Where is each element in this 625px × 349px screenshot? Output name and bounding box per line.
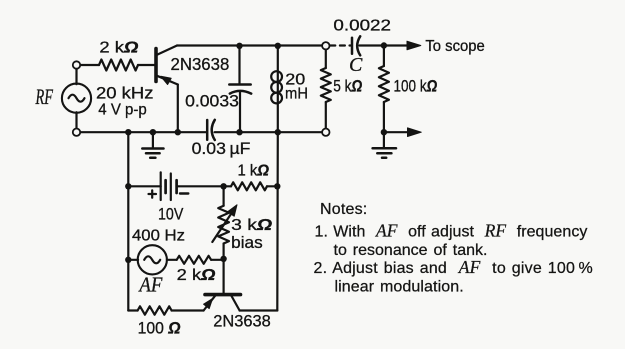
svg-text:1. With AF off adjust RF f: 1. With AF off adjust RF frequency — [315, 220, 588, 240]
resistor R3 5k ohm — [321, 68, 331, 102]
wire R6 lower lead — [223, 244, 225, 259]
svg-text:4 V p-p: 4 V p-p — [98, 102, 147, 119]
svg-text:400 Hz: 400 Hz — [132, 228, 185, 245]
wire R6 upper lead — [223, 186, 225, 205]
battery B1 10V positive tall plate — [160, 172, 162, 200]
node C2 branch on bottom rail — [236, 129, 242, 135]
svg-text:To scope: To scope — [425, 38, 484, 55]
transistor Q2 collector lead — [231, 296, 239, 311]
node C2 branch on top rail — [236, 43, 242, 49]
wire top rail (Q1 collector to tank terminal) — [177, 44, 322, 46]
resistor R6 rheostat arrow head — [228, 205, 237, 216]
source RF 20kHz circle — [62, 84, 91, 113]
wire bottom rail left segment (RF to 0.03uF cap) — [80, 131, 206, 133]
wire RF bottom stub — [75, 112, 77, 128]
capacitor C2 0.0033 bottom curved plate — [230, 91, 251, 94]
wire dashed link to coupling capacitor C — [330, 44, 350, 46]
node inductor L1 on bottom rail — [275, 129, 281, 135]
node right rail junction — [274, 183, 280, 189]
svg-text:C: C — [349, 54, 363, 76]
wire C2 branch lower — [239, 93, 241, 133]
source RF sine wave — [69, 95, 85, 102]
svg-text:10V: 10V — [158, 205, 183, 223]
svg-text:100 kΩ: 100 kΩ — [394, 77, 438, 95]
ground G2 stub — [383, 132, 385, 148]
capacitor C 0.0022 right curved plate — [357, 36, 360, 55]
node scope tap — [381, 42, 387, 48]
inductor L1 20 mH coil loop 1 — [271, 71, 282, 82]
wire Q1 emitter vertical — [177, 85, 179, 133]
terminal open circle tank top — [322, 42, 329, 49]
resistor R5 1k ohm — [231, 182, 267, 190]
ground G1 stub — [152, 132, 154, 148]
svg-text:2. Adjust bias and AF to giv: 2. Adjust bias and AF to give 100 % — [314, 257, 593, 277]
svg-text:2N3638: 2N3638 — [171, 54, 230, 74]
wire battery right lead — [177, 185, 231, 187]
arrow to scope — [407, 41, 421, 50]
svg-text:2 kΩ: 2 kΩ — [177, 267, 216, 284]
resistor R3 5k upper lead — [325, 50, 327, 69]
wire Q2 base vertical — [223, 259, 225, 293]
wire R7 right lead — [211, 259, 224, 261]
wire AF right lead — [167, 259, 177, 261]
battery B1 inner tall plate — [170, 174, 172, 201]
resistor R7 2k ohm — [177, 256, 211, 264]
transistor Q1 2N3638 base bar — [154, 49, 158, 82]
svg-text:2 kΩ: 2 kΩ — [99, 39, 138, 56]
svg-text:3 kΩ: 3 kΩ — [231, 217, 273, 234]
battery B1 inner short plate — [164, 180, 167, 193]
svg-text:mH: mH — [285, 86, 308, 103]
source AF 400 Hz circle — [138, 245, 167, 274]
terminal open circle RF bottom — [73, 129, 80, 136]
wire resistor R1 lead to Q1 base — [138, 64, 154, 66]
transistor Q2 2N3638 base bar — [205, 293, 241, 297]
svg-text:RF: RF — [35, 84, 54, 109]
svg-text:Notes:: Notes: — [320, 201, 367, 218]
resistor R6 3k bias rheostat — [218, 206, 229, 244]
wire R5 right lead — [267, 185, 277, 187]
resistor R4 100k ohm — [379, 66, 389, 102]
capacitor C2 0.0033 top plate — [229, 83, 250, 86]
svg-text:0.03 µF: 0.03 µF — [192, 140, 251, 158]
label battery polarity minus — [180, 192, 188, 194]
resistor R3 5k lower lead — [325, 102, 327, 129]
svg-text:1 kΩ: 1 kΩ — [238, 162, 270, 179]
svg-text:linear modulation.: linear modulation. — [335, 278, 464, 295]
wire Q1 collector slope — [157, 46, 177, 55]
ground G1 — [142, 149, 163, 158]
node inductor L1 on top rail — [275, 43, 281, 49]
ground G2 — [373, 148, 396, 157]
arrow scope ground — [408, 128, 422, 137]
node scope ground tap — [381, 129, 387, 135]
svg-text:5 kΩ: 5 kΩ — [333, 77, 362, 95]
wire to scope ground arrow — [384, 131, 409, 133]
transistor Q2 emitter lead — [204, 296, 216, 311]
transistor Q1 emitter lead — [157, 76, 178, 85]
wire R8 to Q2 emitter — [172, 309, 204, 311]
wire C to scope — [360, 44, 409, 46]
svg-text:bias: bias — [231, 234, 263, 252]
capacitor C1 0.03uF left plate — [206, 120, 209, 140]
node bias tap — [220, 183, 226, 189]
wire AF left stub — [128, 259, 138, 261]
wire bottom rail right segment (0.03uF cap to tank terminal) — [215, 131, 323, 133]
capacitor C1 0.03uF right curved plate — [212, 120, 215, 140]
wire Q2 collector to right rail — [240, 309, 278, 311]
resistor R8 100 ohm — [138, 306, 172, 314]
node Q2 base junction — [220, 256, 226, 262]
node Q1 emitter on bottom rail — [175, 129, 181, 135]
svg-text:2N3638: 2N3638 — [213, 312, 271, 330]
wire RF top stub — [75, 69, 77, 84]
wire L1 vertical — [277, 46, 279, 132]
battery B1 negative short plate — [175, 180, 178, 193]
wire base lead Q1 — [80, 64, 99, 66]
capacitor C 0.0022 left plate — [351, 38, 354, 54]
wire battery left lead — [128, 185, 160, 187]
node lower-left rail tap on bottom rail — [125, 129, 131, 135]
wire C2 branch upper — [238, 46, 240, 85]
label battery polarity plus — [149, 190, 157, 197]
resistor R4 100k lower lead — [383, 102, 385, 132]
node AF on left rail — [125, 257, 131, 263]
transistor Q2 emitter arrow — [204, 299, 213, 309]
svg-text:100 Ω: 100 Ω — [138, 319, 181, 337]
resistor R4 100k upper lead — [383, 46, 385, 67]
svg-text:AF: AF — [138, 273, 163, 297]
wire lower-left rail — [127, 132, 129, 310]
svg-text:0.0033: 0.0033 — [185, 91, 239, 110]
inductor L1 20 mH coil loop 2 — [271, 82, 282, 93]
wire bottom rail lower circuit left — [128, 309, 137, 311]
resistor R1 2k ohm — [99, 60, 138, 71]
transistor Q1 emitter arrow — [161, 76, 171, 84]
svg-text:0.0022: 0.0022 — [333, 18, 391, 35]
inductor L1 20 mH coil loop 3 — [271, 93, 282, 104]
node ground tap on bottom rail — [150, 129, 156, 135]
terminal open circle tank bottom — [322, 129, 329, 136]
wire right rail — [276, 132, 279, 310]
node battery on left rail — [125, 183, 131, 189]
resistor R6 rheostat arrow shaft — [212, 214, 231, 242]
source AF sine wave — [144, 256, 160, 263]
terminal open circle RF top — [73, 61, 80, 68]
svg-text:20 kHz: 20 kHz — [96, 83, 154, 102]
